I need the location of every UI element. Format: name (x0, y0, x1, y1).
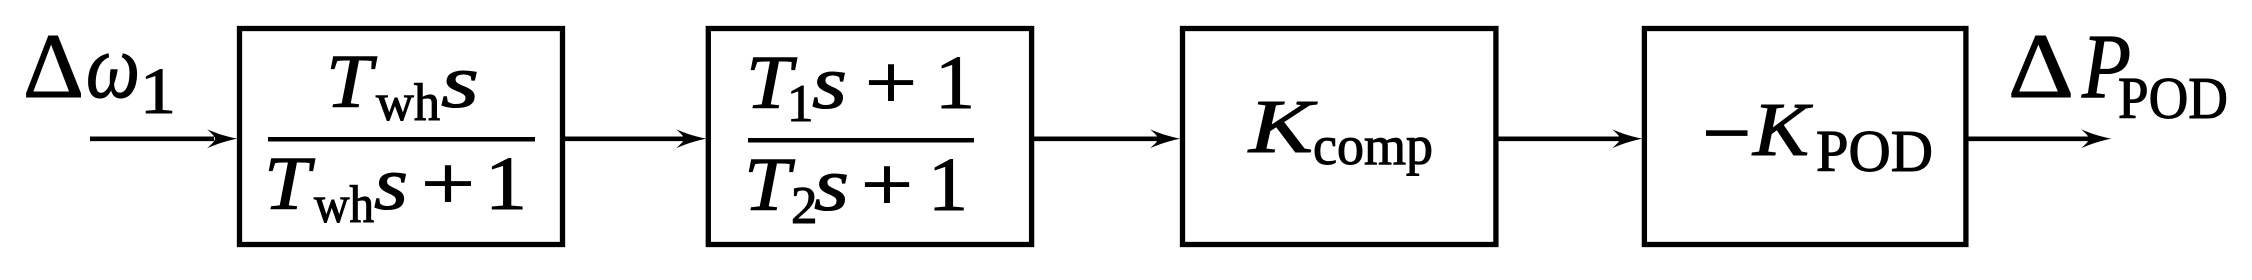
svg-text:ω: ω (86, 15, 140, 117)
value label T2 s + 1 (denominator) (744, 143, 968, 235)
wire input arrow (90, 129, 238, 148)
svg-text:s: s (814, 143, 849, 227)
svg-text:T: T (744, 143, 795, 227)
block gain Kcomp (1183, 29, 1496, 245)
wire block1 to block2 arrow (562, 129, 707, 148)
value label Twh s (numerator) (326, 40, 479, 132)
wire block3 to block4 arrow (1496, 129, 1643, 148)
block washout filter Twh s / (Twh s + 1) (240, 29, 563, 245)
svg-text:1: 1 (928, 143, 968, 227)
svg-text:s: s (441, 40, 479, 124)
svg-text:POD: POD (2118, 65, 2228, 131)
svg-text:T: T (264, 142, 315, 226)
node output label ΔP POD (2008, 15, 2228, 131)
svg-text:wh: wh (376, 74, 440, 132)
fraction bar block 2 (748, 138, 974, 143)
svg-text:Δ: Δ (23, 15, 84, 117)
svg-text:wh: wh (314, 176, 374, 234)
value label Kcomp (1248, 85, 1433, 176)
wire output arrow (1966, 129, 2112, 148)
svg-text:s: s (812, 41, 847, 125)
svg-text:K: K (1752, 88, 1813, 172)
svg-text:POD: POD (1816, 118, 1933, 184)
svg-text:comp: comp (1313, 115, 1433, 176)
svg-text:1: 1 (787, 75, 814, 133)
fraction bar block 1 (268, 137, 535, 142)
value label -KPOD (1706, 88, 1933, 184)
svg-text:1: 1 (140, 55, 176, 128)
value label Twh s + 1 (denominator) (264, 142, 527, 234)
wire block2 to block3 arrow (1032, 129, 1181, 148)
svg-text:+: + (861, 143, 913, 227)
block gain -KPOD (1644, 29, 1966, 245)
block lead-lag (T1 s + 1)/(T2 s + 1) (708, 29, 1031, 245)
value label T1 s + 1 (numerator) (746, 41, 975, 133)
svg-text:+: + (421, 142, 475, 226)
svg-text:s: s (374, 142, 408, 226)
svg-text:+: + (865, 41, 917, 125)
node input label Δω1 (23, 15, 176, 128)
svg-text:T: T (326, 40, 377, 124)
svg-text:1: 1 (935, 41, 975, 125)
svg-text:K: K (1248, 85, 1317, 169)
svg-text:Δ: Δ (2008, 15, 2074, 117)
svg-text:1: 1 (485, 142, 527, 226)
